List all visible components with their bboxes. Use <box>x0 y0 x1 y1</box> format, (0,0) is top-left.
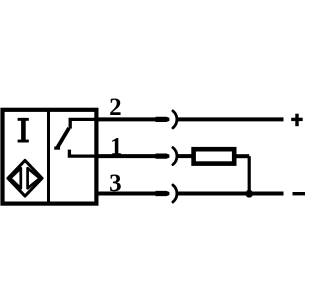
svg-text:2: 2 <box>109 94 122 121</box>
svg-text:1: 1 <box>110 133 123 160</box>
svg-text:3: 3 <box>109 170 122 197</box>
